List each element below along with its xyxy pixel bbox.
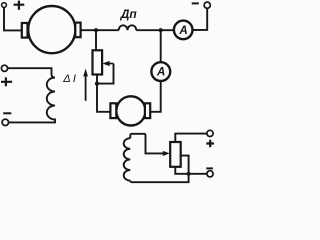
minus sign (top right) <box>192 2 199 4</box>
wire: R1 bottom lead <box>96 75 98 84</box>
svg-text:ΔI: ΔI <box>62 73 76 85</box>
wire: terminal to left brush of M1 <box>4 7 22 30</box>
wiper arrow R2 <box>163 151 170 156</box>
wire: terminal to field winding OV1 <box>8 68 55 77</box>
plus sign (mid left) <box>1 77 12 86</box>
terminal + (top left) <box>2 3 7 8</box>
wire: OV2 top lead to wiper arrow of R2 <box>130 134 163 154</box>
terminal - (bottom right) <box>207 171 213 177</box>
terminal + (bottom right) <box>207 130 213 136</box>
rheostat R2 <box>170 142 181 167</box>
ammeter A2 <box>151 62 170 81</box>
terminal - (top right) <box>204 2 210 8</box>
machine M2 armature <box>116 96 145 125</box>
machine M1 armature <box>28 6 75 53</box>
ammeter A1 <box>174 21 193 40</box>
svg-text:A: A <box>156 67 165 79</box>
wire: R2 wiper loop <box>181 156 189 174</box>
minus sign (bottom right) <box>206 167 213 169</box>
terminal - (left) <box>2 119 8 125</box>
wire: R2 bottom lead to - terminal <box>175 167 207 174</box>
field winding OV2 (machine M2 excitation) <box>124 138 131 180</box>
wire: A1 to top right terminal <box>193 8 208 30</box>
wire: OV2 bottom lead along bottom <box>130 174 188 182</box>
svg-text:Дп: Дп <box>120 7 138 21</box>
wiper arrow R1 <box>109 63 114 65</box>
plus sign (bottom right) <box>206 140 214 148</box>
brush left M2 <box>110 103 116 118</box>
arrow dI (current direction) <box>85 76 87 101</box>
brush right M2 <box>145 103 150 118</box>
wire: DP coil to ammeter A1 <box>136 29 174 31</box>
wire: R1 to left brush of M2 <box>97 84 110 112</box>
brush right M1 <box>75 23 80 38</box>
wire: wiper loop to bottom of R1 <box>97 64 114 84</box>
inductor DP winding <box>119 25 137 30</box>
svg-text:A: A <box>178 25 187 37</box>
wire: R2 top lead to + terminal <box>175 134 207 142</box>
wire: A2 top to J2 <box>160 30 162 62</box>
brush left M1 <box>22 23 28 38</box>
minus sign (left) <box>3 112 11 114</box>
wire: J1 down to rheostat R1 <box>95 30 97 50</box>
wire: right brush to DP coil <box>81 29 119 31</box>
plus sign (top left) <box>14 1 25 10</box>
junction bottom right <box>187 172 191 176</box>
junction R1 bottom <box>95 82 99 86</box>
rheostat R1 <box>93 50 103 74</box>
field winding OV1 (machine M1 excitation) <box>9 78 56 123</box>
wire: right brush of M2 up to A2 <box>150 81 161 112</box>
junction J2 <box>159 28 163 32</box>
junction J1 <box>94 28 98 32</box>
terminal + (mid left) <box>1 65 7 71</box>
